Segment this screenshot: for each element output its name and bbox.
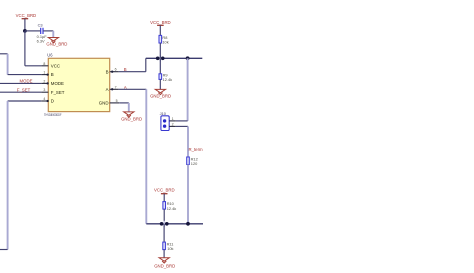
wire net B (left) from edge to pin 1 <box>0 54 41 75</box>
wire R9 to ground <box>159 79 161 89</box>
junction dots on top bus at resistor chain <box>156 55 165 61</box>
resistor R8 10k <box>159 35 169 45</box>
svg-text:B: B <box>51 72 54 77</box>
svg-text:2: 2 <box>172 122 174 126</box>
svg-text:VCC_BRD: VCC_BRD <box>154 188 175 193</box>
svg-text:F_SET: F_SET <box>51 90 65 95</box>
ground GND_BRD (near C3) <box>46 38 67 47</box>
wire net D from pin 4 to lower left edge <box>0 101 41 250</box>
svg-text:THVD8000DDF: THVD8000DDF <box>44 112 62 117</box>
power symbol VCC_BRD (above R8) <box>150 20 171 35</box>
wire pin6 B up to bus <box>119 58 146 71</box>
svg-text:6: 6 <box>115 68 117 72</box>
svg-text:MODE: MODE <box>51 81 64 86</box>
pin 6 B (right) <box>106 68 119 75</box>
wire bus to R9 <box>159 58 161 74</box>
svg-text:C3: C3 <box>38 23 43 28</box>
svg-text:12.4k: 12.4k <box>167 206 177 211</box>
svg-text:8: 8 <box>43 62 45 66</box>
wire top bus <box>146 57 203 59</box>
pin 1 B <box>41 71 54 78</box>
resistor R11 10k <box>163 242 174 252</box>
svg-text:4: 4 <box>43 97 45 101</box>
svg-text:1: 1 <box>172 117 174 121</box>
pin 8 VCC <box>41 62 60 69</box>
junction dots on bottom bus at resistor chain <box>160 221 169 227</box>
wire VCC node down to U6 VCC pin <box>25 31 41 66</box>
svg-text:F_SET: F_SET <box>17 87 31 92</box>
resistor R9 12.4k <box>159 72 172 82</box>
svg-text:VCC: VCC <box>51 63 60 68</box>
wire bottom bus <box>146 223 203 225</box>
wire net F_SET <box>0 91 41 93</box>
wire top bus junction down to J10 pin 1 <box>176 58 188 121</box>
svg-text:GND_BRD: GND_BRD <box>150 94 171 99</box>
svg-text:VCC_BRD: VCC_BRD <box>16 13 37 18</box>
wire net A from pin 7 down to bottom bus <box>119 89 147 224</box>
svg-text:A: A <box>106 87 109 92</box>
wire VCC node to C3 <box>25 30 41 32</box>
wire bottom bus to R11 <box>163 224 165 242</box>
svg-text:R_term: R_term <box>189 147 204 152</box>
svg-text:10k: 10k <box>162 39 168 44</box>
wire R11 to ground <box>163 250 165 258</box>
svg-text:U6: U6 <box>47 53 53 58</box>
svg-text:VCC_BRD: VCC_BRD <box>150 20 171 25</box>
wire J10 pin 2 down to R12 <box>176 126 188 157</box>
resistor R12 120 <box>187 156 198 166</box>
power symbol VCC_BRD (top left) <box>16 13 37 31</box>
svg-text:2: 2 <box>43 79 45 83</box>
svg-text:6.3V: 6.3V <box>37 39 45 44</box>
svg-text:GND_BRD: GND_BRD <box>121 116 142 121</box>
resistor R10 12.4k <box>163 201 176 211</box>
svg-text:D: D <box>51 99 54 104</box>
wire U6 GND pin to ground <box>119 103 129 112</box>
wire C3 to ground corner <box>43 31 53 38</box>
J10 pin 2 <box>169 122 176 126</box>
connector J10 <box>160 111 170 131</box>
svg-text:12.4k: 12.4k <box>163 77 173 82</box>
svg-text:J10: J10 <box>160 111 167 116</box>
junction at VCC node <box>23 29 27 33</box>
svg-text:MODE: MODE <box>20 79 33 84</box>
power symbol VCC_BRD (above R10) <box>154 188 175 202</box>
wire net MODE <box>0 82 41 84</box>
wire R12 down to bottom bus <box>187 165 189 224</box>
ground GND_BRD (under U6) <box>121 112 142 122</box>
svg-text:B: B <box>106 69 109 74</box>
svg-text:1: 1 <box>43 71 45 75</box>
ground GND_BRD (under R9) <box>150 89 171 98</box>
pin 3 F_SET <box>41 88 65 95</box>
svg-text:GND_BRD: GND_BRD <box>154 264 175 269</box>
J10 pin 1 <box>169 117 176 121</box>
svg-text:5: 5 <box>116 99 118 103</box>
capacitor C3 <box>37 23 48 44</box>
pin 2 MODE <box>41 79 64 86</box>
pin 5 GND (right) <box>99 99 120 106</box>
pin 7 A (right) <box>106 85 119 92</box>
wire R8 to bus <box>159 43 161 58</box>
svg-text:10k: 10k <box>167 246 173 251</box>
pin 4 D <box>41 97 54 104</box>
junction dot on top bus to J10 <box>186 56 190 60</box>
ground GND_BRD (bottom) <box>154 258 175 269</box>
svg-text:120: 120 <box>191 161 198 166</box>
svg-text:3: 3 <box>43 88 45 92</box>
junction dot on bottom bus at R12 <box>186 222 190 226</box>
svg-text:7: 7 <box>115 85 117 89</box>
wire R10 to bottom bus <box>163 209 165 224</box>
svg-text:GND: GND <box>99 101 109 106</box>
svg-text:GND_BRD: GND_BRD <box>46 42 67 47</box>
op-amp U1 ... actually IC U6 THVD8000DDF <box>44 53 110 117</box>
